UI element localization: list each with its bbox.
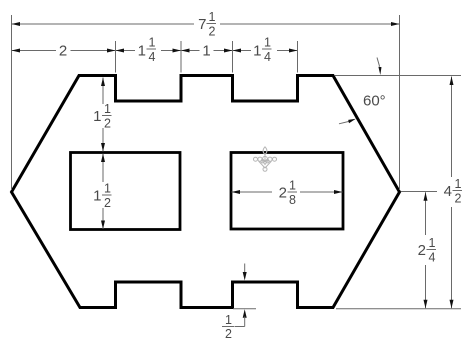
extension line left vertex bbox=[11, 15, 13, 190]
dimension 1/2 notch depth upper arrow bbox=[244, 264, 246, 274]
ornament watermark bbox=[254, 147, 277, 172]
dimension 1 1/2 hole height bbox=[102, 154, 104, 183]
dimension 1 1/4 first line bbox=[161, 50, 200, 52]
svg-text:1: 1 bbox=[264, 36, 271, 50]
svg-text:1: 1 bbox=[93, 108, 101, 125]
svg-text:8: 8 bbox=[289, 193, 296, 207]
extension line notch2 right bbox=[297, 41, 299, 73]
svg-text:2: 2 bbox=[209, 25, 216, 39]
svg-text:2: 2 bbox=[455, 192, 462, 206]
dimension 1 line bbox=[214, 50, 252, 52]
svg-text:4: 4 bbox=[149, 50, 156, 64]
dimension 1 1/2 upper (edge to hole) bbox=[102, 78, 104, 105]
svg-text:1: 1 bbox=[209, 10, 216, 24]
svg-text:60°: 60° bbox=[363, 93, 386, 110]
dimension 2 line bbox=[12, 50, 57, 52]
svg-text:1: 1 bbox=[138, 43, 146, 60]
dimension 4 1/2 line bbox=[451, 77, 453, 178]
svg-text:1: 1 bbox=[455, 177, 462, 191]
svg-text:7: 7 bbox=[198, 16, 206, 33]
svg-text:1: 1 bbox=[104, 102, 111, 116]
svg-text:1: 1 bbox=[202, 43, 210, 60]
extension line notch1 right bbox=[180, 41, 182, 73]
svg-text:1: 1 bbox=[93, 188, 101, 205]
extension line notch2 left bbox=[232, 41, 234, 73]
svg-text:1: 1 bbox=[289, 179, 296, 193]
svg-text:2: 2 bbox=[418, 242, 426, 259]
svg-text:1: 1 bbox=[104, 182, 111, 196]
part outline bbox=[12, 76, 400, 308]
svg-text:1: 1 bbox=[149, 36, 156, 50]
extension line bottom right horizontal bbox=[336, 308, 461, 310]
svg-text:1: 1 bbox=[225, 313, 232, 327]
svg-text:2: 2 bbox=[104, 117, 111, 131]
svg-text:2: 2 bbox=[225, 327, 232, 341]
svg-text:2: 2 bbox=[59, 43, 67, 60]
extension line notch1 left bbox=[115, 41, 117, 73]
dimension 2 1/8 line bbox=[232, 191, 273, 193]
svg-text:2: 2 bbox=[279, 185, 287, 202]
extension line right vertex horizontal bbox=[401, 191, 437, 193]
extension line top right horizontal bbox=[335, 75, 461, 77]
svg-text:1: 1 bbox=[253, 43, 261, 60]
extension line right vertex bbox=[399, 15, 401, 190]
extension line under bottom notch bbox=[233, 308, 256, 310]
dimension 1 1/4 second line bbox=[277, 50, 298, 52]
right rectangle hole bbox=[231, 153, 343, 230]
leader arrow to slanted edge bbox=[339, 121, 349, 123]
dimension 1/2 lower arrow and leader bbox=[243, 309, 247, 318]
dimension 7 1/2 line bbox=[12, 23, 195, 25]
left rectangle hole bbox=[71, 153, 181, 230]
svg-text:4: 4 bbox=[264, 50, 271, 64]
dimension 2 1/4 line bbox=[425, 192, 427, 235]
svg-text:4: 4 bbox=[429, 251, 436, 265]
svg-text:2: 2 bbox=[104, 196, 111, 210]
svg-text:1: 1 bbox=[429, 236, 436, 250]
leader arrow to horizontal extension bbox=[377, 58, 380, 67]
svg-text:4: 4 bbox=[444, 183, 452, 200]
